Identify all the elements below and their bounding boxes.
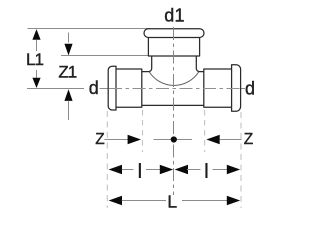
svg-text:Z: Z bbox=[95, 131, 104, 148]
extension line right face bbox=[240, 112, 242, 208]
label l right bbox=[205, 163, 207, 178]
svg-text:L: L bbox=[167, 191, 177, 211]
tee body fill bbox=[108, 30, 240, 111]
branch socket walls bbox=[148, 38, 199, 57]
extension line left socket step bbox=[142, 110, 144, 152]
svg-text:d1: d1 bbox=[164, 6, 184, 26]
extension line left face bbox=[106, 111, 108, 208]
dimension L arrows and line bbox=[109, 196, 241, 205]
saddle arc at junction bbox=[149, 72, 198, 86]
svg-text:L1: L1 bbox=[26, 50, 43, 69]
centerline horizontal (run axis) bbox=[109, 88, 241, 90]
dimension Z right: arrow to step bbox=[206, 135, 241, 144]
right socket outline bbox=[204, 69, 232, 107]
extension line right socket step bbox=[204, 110, 206, 152]
label l left bbox=[139, 163, 141, 178]
dimension L1 upper arrow bbox=[32, 29, 40, 51]
run bottom edge bbox=[142, 104, 204, 106]
dimension l left: inner arrow bbox=[146, 165, 173, 174]
centerline vertical (branch axis) bbox=[173, 27, 175, 195]
dimension l right: outer arrow bbox=[213, 165, 241, 174]
reference line top of branch (L1 top) bbox=[28, 28, 151, 30]
svg-text:d: d bbox=[89, 78, 99, 98]
dimension L1 lower arrow bbox=[32, 70, 40, 88]
bead top branch (press end) bbox=[144, 29, 204, 38]
dimension Z left: arrow to step bbox=[105, 135, 142, 144]
dimension l right: inner arrow bbox=[175, 165, 201, 174]
svg-text:d: d bbox=[245, 78, 255, 98]
svg-text:Z1: Z1 bbox=[58, 63, 76, 82]
reference line run centerline left (L1/Z1 bottom) bbox=[27, 88, 84, 90]
branch tube walls with fillets to run bbox=[142, 56, 152, 72]
bead left (press end) bbox=[108, 66, 116, 110]
dimension Z1 lower arrow bbox=[64, 89, 72, 120]
reference line branch socket step level (Z1 top) bbox=[61, 55, 149, 57]
center point with line bbox=[154, 136, 193, 142]
dimension Z1 upper arrow bbox=[64, 33, 72, 56]
leader d left bbox=[100, 88, 110, 90]
left socket outline bbox=[116, 69, 142, 107]
svg-text:Z: Z bbox=[244, 131, 253, 148]
bead right (press end) bbox=[232, 65, 241, 111]
leader d right bbox=[241, 88, 245, 90]
dimension l left: outer arrow bbox=[109, 165, 134, 174]
